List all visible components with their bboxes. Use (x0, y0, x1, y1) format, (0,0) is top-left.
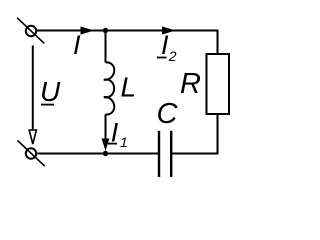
terminal bottom-left (18, 141, 45, 167)
arrow current I1 (102, 139, 110, 152)
inductor L1 coil (104, 62, 114, 114)
label I1 (108, 118, 128, 151)
svg-text:R: R (180, 68, 201, 100)
svg-text:C: C (157, 98, 179, 130)
wire right branch bottom (172, 114, 218, 154)
arrow current I2 (162, 26, 176, 34)
label I2 (157, 30, 177, 64)
svg-text:1: 1 (120, 134, 128, 150)
wire inductor branch bottom (105, 114, 107, 140)
svg-text:2: 2 (168, 48, 177, 64)
svg-text:I: I (161, 30, 169, 60)
resistor R (207, 54, 230, 114)
wire bottom (37, 153, 158, 155)
wire top (37, 30, 218, 32)
arrow voltage U (29, 130, 36, 144)
terminal top-left (17, 18, 44, 44)
wire left branch (32, 46, 34, 131)
capacitor C plates (159, 131, 171, 177)
svg-text:U: U (40, 76, 61, 107)
svg-text:I: I (73, 30, 81, 60)
node junction top (103, 28, 108, 33)
wire right branch top (217, 30, 219, 55)
label U (40, 76, 61, 107)
arrow current I (81, 26, 95, 34)
svg-text:L: L (121, 72, 137, 103)
wire inductor branch top (105, 31, 107, 63)
node junction bottom (103, 151, 108, 156)
